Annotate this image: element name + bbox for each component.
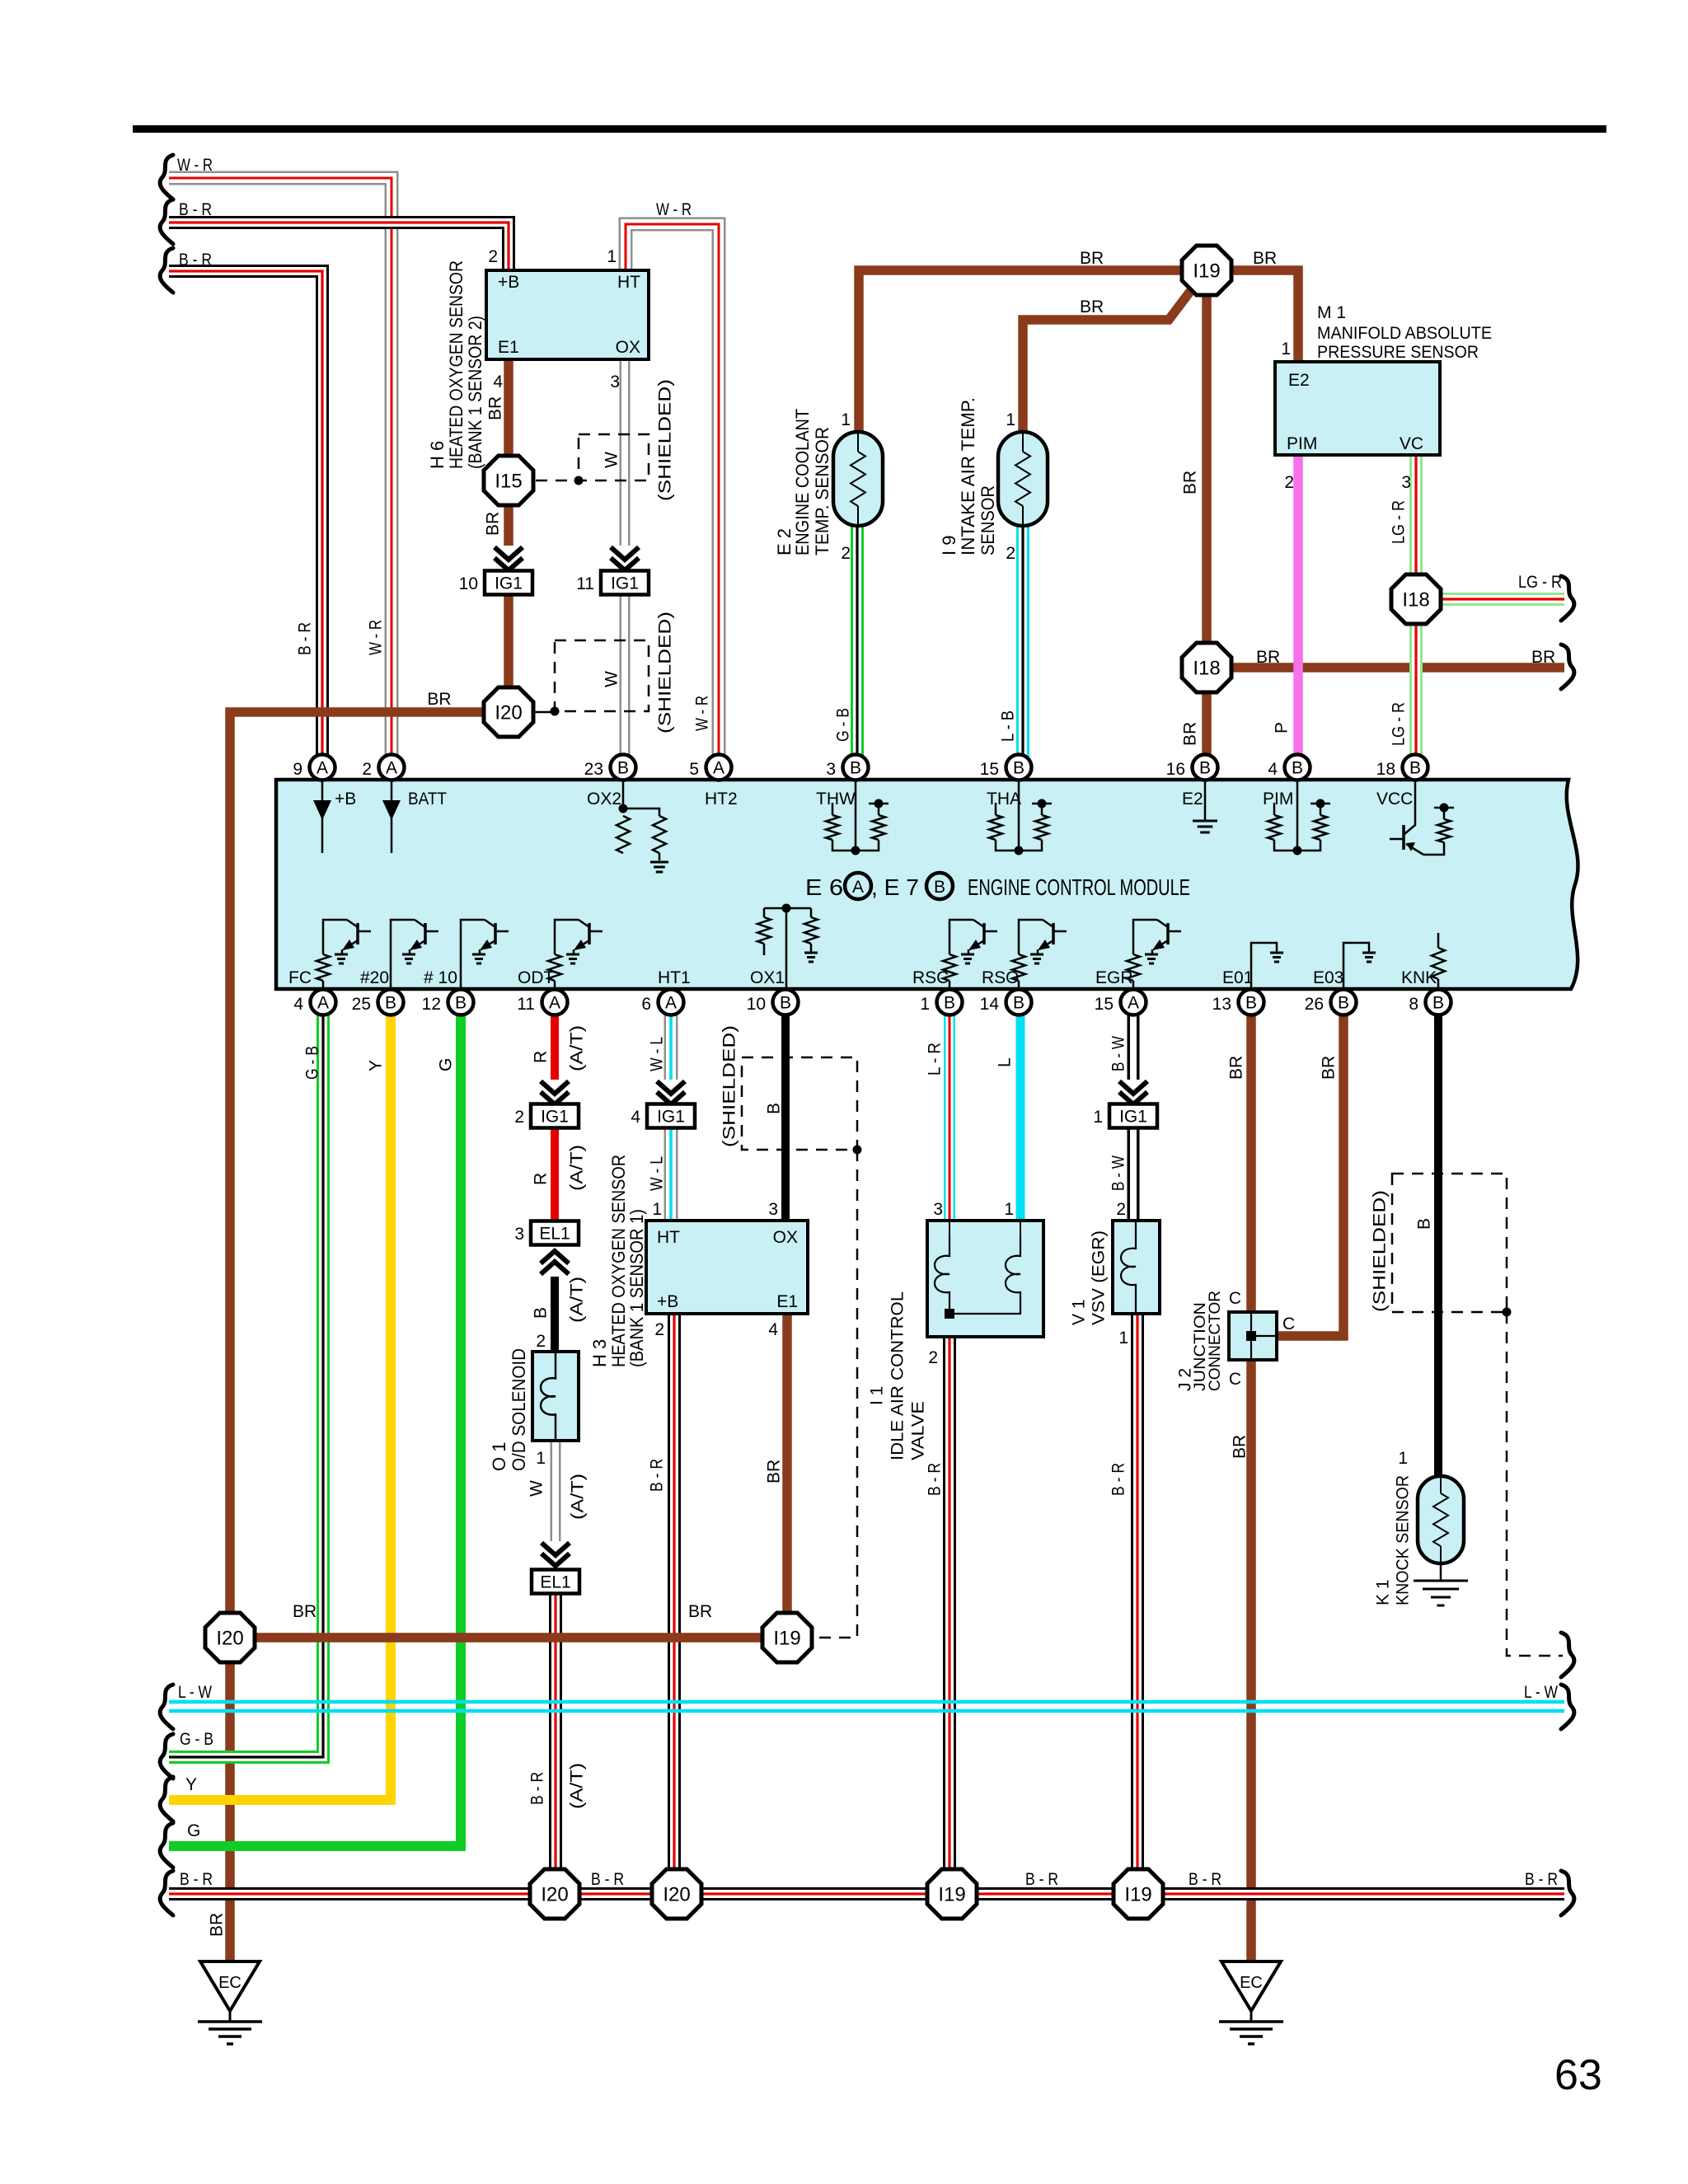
- svg-text:3: 3: [1401, 473, 1411, 492]
- svg-text:W: W: [527, 1480, 546, 1497]
- svg-text:VSV (EGR): VSV (EGR): [1090, 1230, 1109, 1325]
- svg-text:I19: I19: [773, 1628, 800, 1650]
- svg-text:BR: BR: [1181, 471, 1200, 494]
- svg-text:W - R: W - R: [367, 620, 386, 655]
- svg-text:B: B: [1292, 759, 1303, 778]
- svg-text:BR: BR: [1227, 1056, 1246, 1080]
- svg-text:2: 2: [654, 1320, 664, 1339]
- svg-text:W - R: W - R: [177, 156, 213, 175]
- svg-text:(SHIELDED): (SHIELDED): [1371, 1190, 1390, 1312]
- svg-text:C: C: [1282, 1315, 1295, 1333]
- svg-text:, E 7: , E 7: [871, 874, 919, 900]
- svg-text:M 1: M 1: [1317, 303, 1346, 322]
- svg-text:O 1: O 1: [489, 1442, 509, 1471]
- svg-text:23: 23: [584, 760, 603, 779]
- svg-text:W: W: [603, 671, 621, 687]
- svg-text:B: B: [1245, 994, 1257, 1013]
- svg-text:(A/T): (A/T): [568, 1145, 587, 1191]
- svg-text:OX1: OX1: [750, 968, 785, 987]
- svg-text:Y: Y: [367, 1060, 386, 1071]
- svg-text:B - R: B - R: [1525, 1870, 1558, 1889]
- svg-text:BR: BR: [1080, 249, 1104, 268]
- svg-text:ENGINE CONTROL MODULE: ENGINE CONTROL MODULE: [968, 874, 1190, 900]
- svg-text:18: 18: [1376, 760, 1395, 779]
- svg-text:INTAKE AIR TEMP.: INTAKE AIR TEMP.: [958, 397, 978, 555]
- svg-text:V 1: V 1: [1070, 1299, 1089, 1325]
- svg-text:+B: +B: [498, 273, 519, 292]
- svg-text:I19: I19: [1124, 1884, 1151, 1906]
- svg-text:W - R: W - R: [693, 696, 712, 731]
- svg-text:I20: I20: [541, 1884, 568, 1906]
- svg-text:HT: HT: [617, 273, 640, 292]
- svg-text:PIM: PIM: [1287, 434, 1317, 453]
- svg-text:(A/T): (A/T): [569, 1474, 588, 1520]
- svg-text:63: 63: [1554, 2051, 1602, 2099]
- svg-text:A: A: [665, 994, 677, 1013]
- svg-text:EC: EC: [1240, 1974, 1263, 1992]
- svg-text:I20: I20: [663, 1884, 690, 1906]
- svg-text:1: 1: [920, 995, 930, 1014]
- svg-text:BR: BR: [1531, 648, 1555, 667]
- svg-text:P: P: [1273, 722, 1292, 733]
- svg-text:G: G: [187, 1821, 200, 1840]
- svg-text:(SHIELDED): (SHIELDED): [656, 612, 675, 733]
- svg-text:(A/T): (A/T): [568, 1277, 587, 1323]
- svg-text:(SHIELDED): (SHIELDED): [720, 1025, 739, 1147]
- svg-text:B: B: [1013, 759, 1025, 778]
- svg-text:(A/T): (A/T): [568, 1025, 587, 1071]
- svg-text:4: 4: [631, 1108, 640, 1127]
- svg-text:A: A: [317, 994, 329, 1013]
- svg-text:R: R: [532, 1051, 551, 1063]
- svg-text:1: 1: [1006, 410, 1015, 429]
- svg-text:L: L: [996, 1057, 1015, 1067]
- svg-text:1: 1: [1118, 1329, 1128, 1347]
- svg-text:LG - R: LG - R: [1390, 702, 1409, 746]
- svg-text:B: B: [617, 759, 629, 778]
- svg-text:I15: I15: [495, 471, 522, 493]
- svg-text:2: 2: [488, 247, 498, 266]
- svg-text:2: 2: [536, 1332, 546, 1351]
- svg-text:25: 25: [352, 995, 371, 1014]
- svg-text:1: 1: [841, 410, 851, 429]
- svg-text:E1: E1: [776, 1292, 798, 1311]
- svg-text:B: B: [385, 994, 396, 1013]
- svg-text:B: B: [944, 994, 955, 1013]
- svg-text:(BANK 1 SENSOR 1): (BANK 1 SENSOR 1): [626, 1209, 647, 1367]
- svg-text:TEMP. SENSOR: TEMP. SENSOR: [812, 427, 832, 555]
- svg-text:L - B: L - B: [999, 710, 1018, 742]
- svg-text:BR: BR: [486, 396, 505, 420]
- svg-text:4: 4: [768, 1320, 778, 1339]
- svg-text:BR: BR: [765, 1460, 784, 1483]
- svg-text:# 10: # 10: [424, 968, 457, 987]
- svg-text:ENGINE COOLANT: ENGINE COOLANT: [792, 409, 813, 555]
- svg-text:PIM: PIM: [1263, 790, 1293, 808]
- svg-text:15: 15: [1095, 995, 1114, 1014]
- svg-text:EC: EC: [218, 1974, 241, 1992]
- svg-text:1: 1: [1281, 340, 1291, 359]
- svg-text:VCC: VCC: [1376, 790, 1413, 808]
- svg-text:B - R: B - R: [1025, 1870, 1058, 1889]
- svg-text:1: 1: [607, 247, 617, 266]
- svg-text:G - B: G - B: [180, 1730, 213, 1749]
- svg-text:MANIFOLD ABSOLUTE: MANIFOLD ABSOLUTE: [1317, 324, 1492, 343]
- svg-text:(SHIELDED): (SHIELDED): [656, 379, 675, 501]
- svg-text:A: A: [713, 759, 724, 778]
- svg-text:W - R: W - R: [656, 200, 692, 219]
- svg-text:BR: BR: [1256, 648, 1280, 667]
- svg-text:BR: BR: [1080, 298, 1104, 316]
- svg-text:10: 10: [747, 995, 766, 1014]
- svg-text:H 3: H 3: [589, 1339, 610, 1367]
- svg-text:IG1: IG1: [1119, 1108, 1147, 1127]
- svg-text:(BANK 1 SENSOR 2): (BANK 1 SENSOR 2): [465, 316, 485, 469]
- svg-text:8: 8: [1409, 995, 1418, 1014]
- svg-text:B: B: [765, 1103, 784, 1114]
- svg-text:OX: OX: [773, 1228, 798, 1247]
- svg-text:1: 1: [1398, 1449, 1408, 1468]
- svg-text:E2: E2: [1182, 790, 1203, 808]
- svg-text:I18: I18: [1402, 589, 1429, 612]
- svg-text:9: 9: [293, 760, 302, 779]
- svg-text:PRESSURE SENSOR: PRESSURE SENSOR: [1317, 343, 1479, 362]
- svg-text:HT1: HT1: [658, 968, 691, 987]
- svg-text:A: A: [549, 994, 560, 1013]
- svg-text:I20: I20: [495, 702, 522, 724]
- svg-text:IDLE AIR CONTROL: IDLE AIR CONTROL: [889, 1291, 907, 1460]
- svg-text:B - R: B - R: [648, 1459, 667, 1492]
- svg-text:B - W: B - W: [1109, 1155, 1128, 1191]
- svg-text:OX: OX: [616, 338, 640, 357]
- svg-text:B - R: B - R: [180, 1870, 213, 1889]
- svg-text:6: 6: [641, 995, 651, 1014]
- svg-text:B - R: B - R: [179, 200, 212, 219]
- svg-text:2: 2: [1116, 1200, 1126, 1219]
- svg-text:5: 5: [689, 760, 699, 779]
- svg-text:4: 4: [293, 995, 303, 1014]
- svg-text:B: B: [850, 759, 861, 778]
- svg-text:L - W: L - W: [1524, 1683, 1558, 1702]
- svg-text:B - R: B - R: [528, 1772, 547, 1805]
- svg-text:Y: Y: [185, 1775, 197, 1794]
- svg-text:BR: BR: [1320, 1056, 1339, 1080]
- svg-text:A: A: [316, 759, 328, 778]
- svg-text:+B: +B: [657, 1292, 678, 1311]
- svg-text:B - R: B - R: [1109, 1463, 1128, 1496]
- svg-text:B - R: B - R: [591, 1870, 624, 1889]
- svg-text:BR: BR: [208, 1913, 227, 1937]
- svg-text:W - L: W - L: [648, 1037, 667, 1071]
- svg-text:2: 2: [841, 544, 851, 563]
- svg-text:I19: I19: [1193, 260, 1220, 283]
- svg-text:BR: BR: [1231, 1435, 1250, 1459]
- svg-text:KNOCK SENSOR: KNOCK SENSOR: [1394, 1475, 1413, 1605]
- svg-text:B - W: B - W: [1109, 1036, 1128, 1071]
- svg-text:IG1: IG1: [611, 574, 639, 593]
- svg-text:C: C: [1229, 1370, 1241, 1389]
- svg-text:HT2: HT2: [705, 790, 738, 808]
- svg-text:3: 3: [610, 373, 620, 391]
- svg-text:BR: BR: [484, 512, 503, 536]
- svg-text:FC: FC: [288, 968, 312, 987]
- svg-text:E 6: E 6: [805, 874, 843, 900]
- svg-text:G - B: G - B: [834, 708, 853, 742]
- svg-text:L - R: L - R: [926, 1043, 945, 1076]
- svg-text:+B: +B: [335, 790, 356, 808]
- svg-text:13: 13: [1212, 995, 1231, 1014]
- svg-text:12: 12: [422, 995, 441, 1014]
- svg-text:LG - R: LG - R: [1518, 573, 1562, 592]
- svg-text:1: 1: [652, 1200, 662, 1219]
- svg-text:1: 1: [1093, 1108, 1103, 1127]
- svg-text:B: B: [455, 994, 467, 1013]
- svg-text:I18: I18: [1193, 658, 1220, 680]
- svg-text:14: 14: [980, 995, 1000, 1014]
- svg-text:I 1: I 1: [868, 1386, 887, 1405]
- svg-text:1: 1: [1004, 1200, 1014, 1219]
- svg-text:B - R: B - R: [179, 251, 212, 269]
- svg-text:EL1: EL1: [540, 1573, 570, 1592]
- svg-text:3: 3: [514, 1225, 524, 1244]
- svg-text:BATT: BATT: [408, 790, 447, 808]
- svg-text:4: 4: [493, 373, 503, 391]
- svg-text:11: 11: [517, 995, 535, 1014]
- svg-text:SENSOR: SENSOR: [978, 485, 998, 555]
- svg-text:A: A: [1128, 994, 1139, 1013]
- svg-text:H 6: H 6: [427, 441, 448, 469]
- svg-text:(A/T): (A/T): [568, 1763, 587, 1809]
- svg-text:E03: E03: [1313, 968, 1343, 987]
- svg-text:G - B: G - B: [303, 1046, 322, 1080]
- svg-text:B - R: B - R: [1189, 1870, 1221, 1889]
- svg-text:IG1: IG1: [541, 1108, 569, 1127]
- svg-text:16: 16: [1166, 760, 1185, 779]
- svg-text:E2: E2: [1288, 371, 1310, 390]
- svg-text:G: G: [437, 1058, 456, 1071]
- svg-text:A: A: [386, 759, 397, 778]
- svg-text:B: B: [1013, 994, 1025, 1013]
- svg-text:LG - R: LG - R: [1390, 500, 1409, 544]
- svg-text:B: B: [1432, 994, 1444, 1013]
- svg-text:BR: BR: [1253, 249, 1277, 268]
- svg-text:B: B: [532, 1307, 551, 1319]
- svg-text:3: 3: [768, 1200, 778, 1219]
- svg-text:W: W: [603, 452, 621, 468]
- svg-text:BR: BR: [688, 1602, 712, 1621]
- svg-text:E1: E1: [498, 338, 519, 357]
- svg-text:VC: VC: [1400, 434, 1423, 453]
- svg-text:THA: THA: [987, 790, 1021, 808]
- svg-text:BR: BR: [427, 690, 451, 709]
- svg-text:#20: #20: [360, 968, 389, 987]
- svg-text:HEATED OXYGEN SENSOR: HEATED OXYGEN SENSOR: [446, 260, 467, 469]
- svg-text:W - L: W - L: [648, 1156, 667, 1191]
- svg-text:BR: BR: [293, 1602, 316, 1621]
- svg-text:2: 2: [362, 760, 372, 779]
- svg-text:OX2: OX2: [587, 790, 621, 808]
- svg-text:B: B: [1409, 759, 1421, 778]
- svg-text:2: 2: [928, 1348, 938, 1367]
- svg-text:B: B: [1338, 994, 1349, 1013]
- svg-text:E01: E01: [1222, 968, 1253, 987]
- svg-text:2: 2: [1284, 473, 1294, 492]
- svg-text:B - R: B - R: [296, 622, 315, 655]
- svg-text:BR: BR: [1181, 722, 1200, 746]
- svg-text:11: 11: [576, 574, 594, 593]
- svg-text:HT: HT: [657, 1228, 680, 1247]
- svg-text:B - R: B - R: [926, 1463, 945, 1496]
- svg-text:KNK: KNK: [1401, 968, 1437, 987]
- svg-text:1: 1: [536, 1449, 546, 1468]
- svg-text:IG1: IG1: [495, 574, 523, 593]
- svg-text:B: B: [1199, 759, 1211, 778]
- svg-text:2: 2: [514, 1108, 524, 1127]
- svg-text:C: C: [1229, 1289, 1241, 1308]
- svg-text:K 1: K 1: [1374, 1579, 1393, 1605]
- svg-text:I 9: I 9: [939, 536, 959, 555]
- svg-text:B: B: [934, 878, 945, 897]
- svg-text:I19: I19: [938, 1884, 965, 1906]
- svg-text:L - W: L - W: [178, 1683, 212, 1702]
- svg-text:B: B: [780, 994, 791, 1013]
- svg-text:I20: I20: [216, 1628, 243, 1650]
- svg-text:10: 10: [459, 574, 478, 593]
- svg-text:IG1: IG1: [657, 1108, 685, 1127]
- svg-text:R: R: [532, 1173, 551, 1185]
- svg-text:O/D SOLENOID: O/D SOLENOID: [509, 1348, 529, 1471]
- svg-text:3: 3: [933, 1200, 943, 1219]
- svg-text:B: B: [1415, 1218, 1434, 1230]
- svg-text:VALVE: VALVE: [909, 1401, 928, 1460]
- svg-text:A: A: [852, 878, 864, 897]
- svg-text:EL1: EL1: [539, 1225, 570, 1244]
- svg-text:2: 2: [1006, 544, 1015, 563]
- svg-text:THW: THW: [816, 790, 856, 808]
- svg-text:4: 4: [1268, 760, 1278, 779]
- svg-text:15: 15: [980, 760, 999, 779]
- svg-text:CONNECTOR: CONNECTOR: [1207, 1291, 1224, 1391]
- svg-text:3: 3: [826, 760, 836, 779]
- svg-text:26: 26: [1305, 995, 1324, 1014]
